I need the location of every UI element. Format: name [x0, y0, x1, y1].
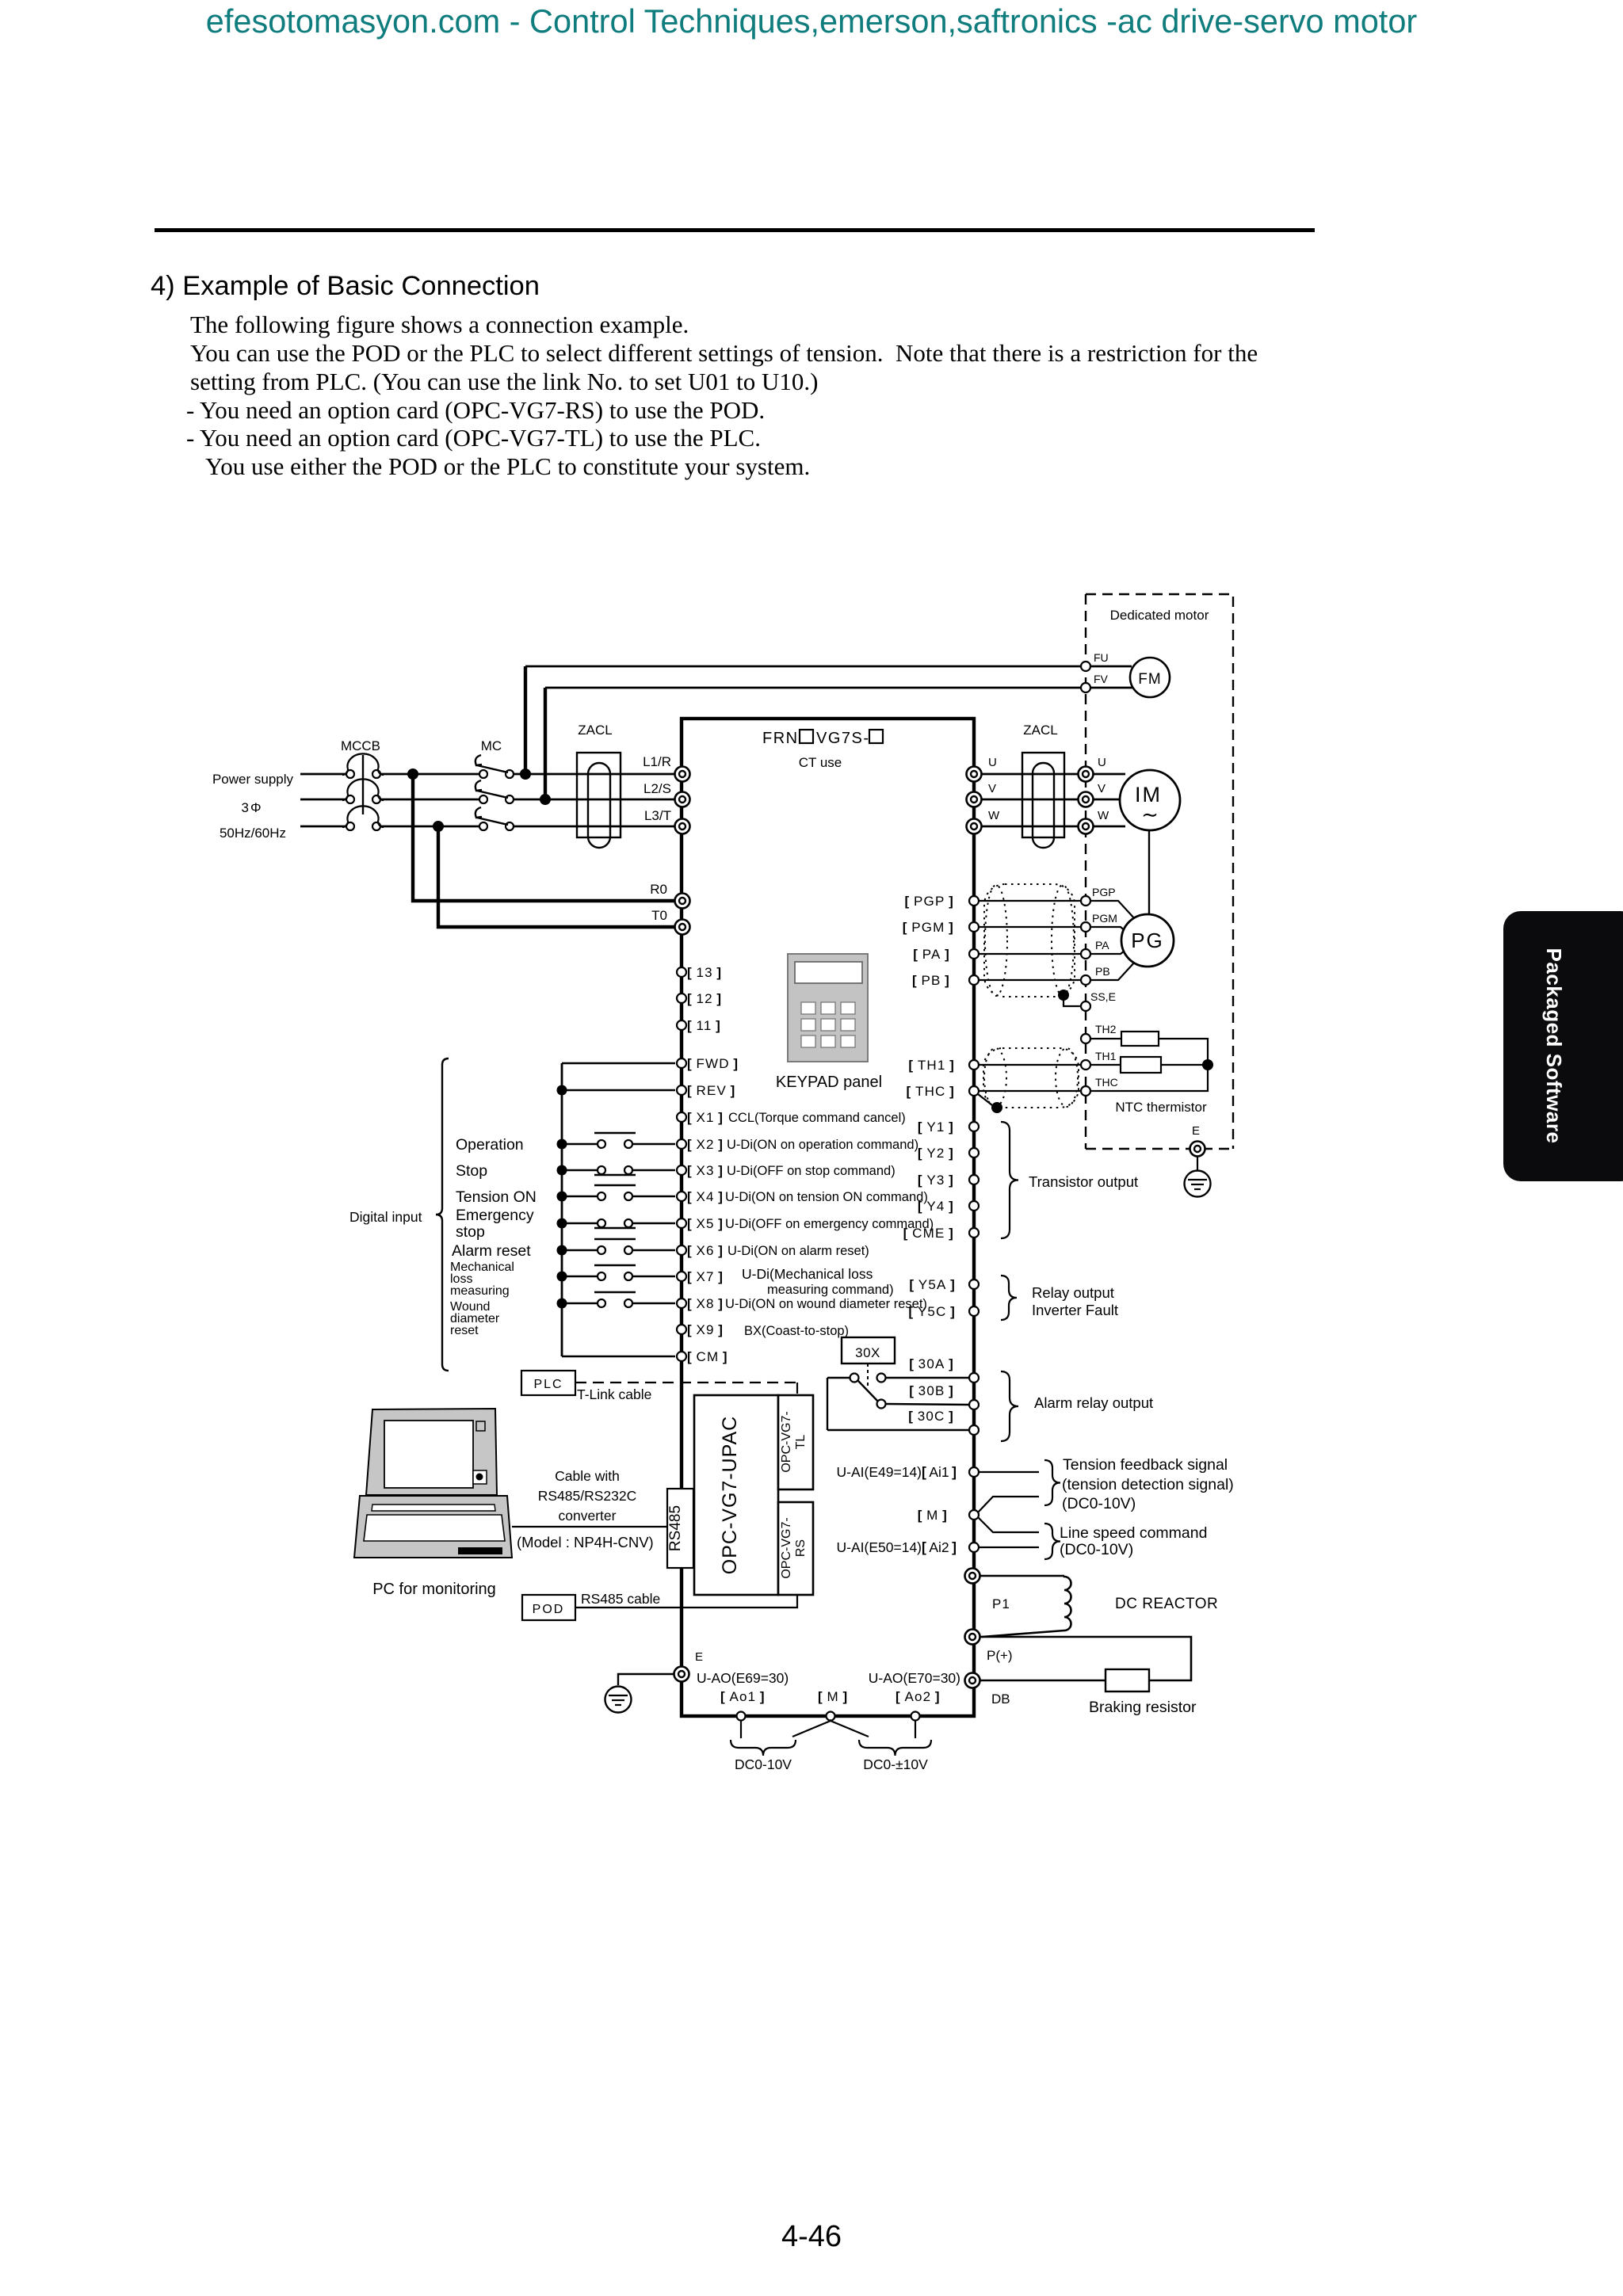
resistor TH1 [1121, 1057, 1161, 1073]
wire T0 tap run [438, 826, 674, 927]
svg-text:[ M ]: [ M ] [818, 1689, 848, 1704]
svg-text:(tension detection signal): (tension detection signal) [1062, 1476, 1234, 1493]
inductor DC reactor [1064, 1576, 1071, 1630]
wire Ai2 [979, 1547, 1039, 1548]
terminal T0 [675, 920, 690, 935]
brace DC0-10V [731, 1740, 796, 1756]
svg-text:T0: T0 [651, 908, 667, 923]
wire R0 tap run [413, 774, 674, 901]
wire PGM to PG [1090, 927, 1128, 934]
wire PGP [979, 900, 1090, 902]
svg-text:U-Di(OFF on stop command): U-Di(OFF on stop command) [727, 1164, 896, 1178]
terminal TH1 inverter [969, 1060, 979, 1070]
svg-text:U: U [1098, 756, 1106, 769]
svg-text:TL: TL [794, 1435, 808, 1450]
svg-text:[ X1 ]: [ X1 ] [687, 1110, 724, 1125]
svg-text:[ THC ]: [ THC ] [907, 1084, 955, 1099]
dedicated motor enclosure [1086, 594, 1233, 1149]
svg-text:[ Y2 ]: [ Y2 ] [918, 1146, 954, 1161]
terminal DB [965, 1673, 980, 1688]
terminal X7 [677, 1272, 686, 1281]
wire V inverter to motor [981, 799, 1125, 801]
svg-text:U: U [988, 756, 997, 769]
tab Packaged Software [1503, 911, 1623, 1181]
page header [0, 2, 1623, 40]
terminal THC motor [1081, 1086, 1090, 1096]
terminal V inverter [967, 792, 982, 807]
terminal E motor [1190, 1142, 1205, 1157]
svg-text:CT use: CT use [799, 755, 842, 770]
svg-text:Emergency: Emergency [456, 1207, 534, 1224]
switch X5 [562, 1222, 597, 1224]
svg-text:SS,E: SS,E [1090, 990, 1116, 1003]
wire FWD [562, 1062, 675, 1064]
inverter FRN-VG7S main box [682, 719, 974, 1716]
svg-text:converter: converter [559, 1508, 617, 1524]
switch X8 [562, 1302, 597, 1304]
svg-text:T-Link cable: T-Link cable [577, 1386, 651, 1402]
terminal V motor [1079, 792, 1094, 807]
svg-text:ZACL: ZACL [578, 723, 612, 738]
svg-text:measuring: measuring [450, 1284, 510, 1298]
svg-text:measuring command): measuring command) [767, 1283, 894, 1297]
svg-text:CCL(Torque command cancel): CCL(Torque command cancel) [728, 1111, 906, 1125]
terminal X8 [677, 1299, 686, 1308]
ground inverter [605, 1687, 632, 1713]
junction X4 bus [557, 1192, 567, 1202]
wire Ai1 [979, 1471, 1039, 1473]
resistor TH2 [1121, 1032, 1159, 1046]
wire TH1 [1090, 1064, 1121, 1066]
box POD [522, 1595, 575, 1620]
section heading [151, 271, 540, 302]
svg-text:V: V [1098, 782, 1106, 795]
svg-text:[ PGP ]: [ PGP ] [905, 894, 954, 909]
svg-text:Braking resistor: Braking resistor [1089, 1699, 1197, 1716]
svg-text:PA: PA [1095, 939, 1109, 952]
terminal Y3 [969, 1175, 979, 1184]
svg-text:ZACL: ZACL [1023, 723, 1057, 738]
svg-text:[ TH1 ]: [ TH1 ] [908, 1058, 955, 1073]
svg-text:[ 30C ]: [ 30C ] [908, 1409, 954, 1424]
svg-text:THC: THC [1095, 1076, 1118, 1089]
terminal 12 [677, 994, 686, 1003]
svg-text:Alarm relay output: Alarm relay output [1034, 1394, 1153, 1411]
wire MCCB to MC L3 [380, 826, 479, 828]
switch X3 [562, 1169, 597, 1171]
svg-text:L3/T: L3/T [644, 808, 671, 823]
svg-text:(DC0-10V): (DC0-10V) [1062, 1495, 1136, 1512]
svg-text:reset: reset [450, 1324, 479, 1337]
brace relay output [1001, 1276, 1017, 1320]
svg-text:POD: POD [533, 1603, 565, 1616]
svg-text:W: W [988, 809, 1000, 822]
wire 30C [827, 1429, 969, 1431]
terminal X3 [677, 1165, 686, 1175]
svg-text:PC for monitoring: PC for monitoring [372, 1581, 496, 1598]
terminal 30C [969, 1425, 979, 1435]
wire THC to shield [978, 1094, 992, 1105]
svg-text:stop: stop [456, 1223, 485, 1241]
svg-text:W: W [1098, 809, 1109, 822]
svg-text:MC: MC [481, 738, 502, 753]
svg-text:[ PA ]: [ PA ] [913, 947, 950, 962]
wire E to ground [618, 1674, 674, 1685]
brace tension feedback [1044, 1460, 1060, 1505]
wire M upper [978, 1497, 1039, 1512]
terminal X6 [677, 1245, 686, 1255]
wire 30A [886, 1377, 969, 1379]
junction X3 bus [557, 1165, 567, 1176]
wire PA [979, 953, 1090, 955]
svg-text:PGP: PGP [1092, 886, 1116, 898]
svg-text:U-Di(OFF on emergency command): U-Di(OFF on emergency command) [725, 1217, 934, 1231]
terminal FV on motor box [1081, 683, 1090, 692]
switch alarm relay [827, 1378, 828, 1430]
svg-text:TH2: TH2 [1095, 1023, 1117, 1035]
shield PG cable [984, 884, 1075, 997]
svg-text:50Hz/60Hz: 50Hz/60Hz [220, 826, 286, 841]
terminal SS,E [1081, 1001, 1090, 1011]
svg-text:[ 12 ]: [ 12 ] [687, 991, 722, 1006]
svg-text:OPC-VG7-UPAC: OPC-VG7-UPAC [719, 1416, 741, 1574]
brace line speed [1044, 1524, 1060, 1559]
svg-text:U-Di(ON on operation command): U-Di(ON on operation command) [727, 1138, 918, 1152]
terminal Ai2 [969, 1543, 979, 1552]
terminal X9 [677, 1325, 686, 1334]
svg-text:[ REV ]: [ REV ] [687, 1083, 736, 1098]
svg-text:U-Di(ON on tension ON command): U-Di(ON on tension ON command) [725, 1190, 928, 1204]
reactor ZACL input [577, 753, 621, 837]
svg-text:∼: ∼ [1141, 803, 1159, 826]
terminal CME [969, 1228, 979, 1238]
wire TH1 link [979, 1064, 1081, 1066]
svg-text:FU: FU [1094, 651, 1109, 664]
terminal L1/R [675, 767, 690, 782]
svg-text:KEYPAD panel: KEYPAD panel [776, 1074, 882, 1091]
wire 30B [886, 1404, 969, 1405]
wire U inverter to motor [981, 773, 1125, 776]
box OPC-VG7-RS [778, 1502, 813, 1595]
brace digital input [436, 1058, 449, 1371]
switch X6 [562, 1249, 597, 1251]
box RS485 [667, 1489, 693, 1568]
terminal FU on motor box [1081, 662, 1090, 671]
wire MCCB to MC L1 [380, 773, 479, 776]
terminal FWD [677, 1058, 686, 1068]
svg-text:Dedicated motor: Dedicated motor [1110, 608, 1209, 623]
svg-text:[ X3 ]: [ X3 ] [687, 1163, 724, 1178]
svg-text:[ X5 ]: [ X5 ] [687, 1216, 724, 1231]
wire TH2 to junction [1159, 1039, 1208, 1060]
svg-text:Cable with: Cable with [555, 1468, 620, 1484]
resistor braking [1106, 1669, 1149, 1691]
motor FM [1130, 658, 1170, 697]
terminal X2 [677, 1139, 686, 1149]
svg-text:NTC thermistor: NTC thermistor [1115, 1100, 1207, 1115]
terminal Y1 [969, 1122, 979, 1131]
wire M lower [978, 1517, 1039, 1532]
svg-text:[ Y3 ]: [ Y3 ] [918, 1173, 954, 1188]
wire PB to PG [1090, 961, 1136, 980]
svg-text:Relay output: Relay output [1032, 1284, 1114, 1301]
terminal E inverter [674, 1667, 689, 1682]
shaft IM to PG [1148, 830, 1150, 914]
wire P(+) to resistor loop [980, 1637, 1191, 1680]
box PLC [521, 1371, 575, 1395]
wire PB [979, 979, 1090, 981]
terminal Y5C [969, 1306, 979, 1316]
svg-text:OPC-VG7-: OPC-VG7- [780, 1411, 793, 1472]
wire P1 to reactor [980, 1575, 1064, 1577]
terminal PGP inverter [969, 896, 979, 906]
switch X4 [562, 1196, 597, 1197]
svg-text:[ Y1 ]: [ Y1 ] [918, 1119, 954, 1135]
terminal Y2 [969, 1148, 979, 1158]
wire E to ground [1197, 1157, 1198, 1170]
terminal CM [677, 1352, 686, 1361]
brace alarm relay output [1001, 1371, 1018, 1441]
svg-text:RS485 cable: RS485 cable [581, 1591, 660, 1607]
wire PA to PG [1090, 948, 1128, 954]
wire 3-phase supply L1 [300, 773, 346, 776]
svg-text:RS485/RS232C: RS485/RS232C [538, 1488, 637, 1504]
switch X2 [562, 1143, 597, 1145]
keypad keys [801, 1002, 815, 1014]
svg-text:[ CM ]: [ CM ] [687, 1349, 728, 1364]
wire W inverter to motor [981, 826, 1125, 828]
svg-text:Power supply: Power supply [212, 772, 294, 787]
junction T0 tap [433, 821, 444, 832]
wire shield to SS,E [1064, 1000, 1080, 1006]
terminal Ai1 [969, 1467, 979, 1477]
svg-text:DC REACTOR: DC REACTOR [1115, 1596, 1218, 1612]
junction FU tap [520, 769, 531, 780]
svg-text:[ 11 ]: [ 11 ] [687, 1018, 721, 1033]
svg-text:[ Y4 ]: [ Y4 ] [918, 1199, 954, 1214]
wire PGM [979, 926, 1090, 928]
brace transistor output [1001, 1122, 1018, 1238]
terminal P(+) [965, 1630, 980, 1645]
terminal PGP motor [1081, 896, 1090, 906]
svg-text:[ X7 ]: [ X7 ] [687, 1269, 724, 1284]
svg-text:U-Di(ON on wound diameter rese: U-Di(ON on wound diameter reset) [725, 1297, 927, 1311]
wire MC to L2/S [514, 799, 675, 801]
svg-text:Operation: Operation [456, 1136, 524, 1154]
svg-text:Inverter Fault: Inverter Fault [1032, 1302, 1118, 1318]
svg-text:FV: FV [1094, 673, 1109, 685]
wire FU [525, 666, 1132, 668]
terminal X4 [677, 1192, 686, 1201]
wire MC to L3/T [514, 826, 675, 828]
svg-text:TH1: TH1 [1095, 1050, 1117, 1062]
terminal TH1 motor [1081, 1060, 1090, 1070]
terminal PGM motor [1081, 922, 1090, 932]
svg-text:Line speed command: Line speed command [1060, 1524, 1207, 1542]
terminal 13 [677, 967, 686, 977]
wire THC link [979, 1090, 1081, 1092]
wire MCCB to MC L2 [380, 799, 479, 801]
wire MC to L1/R [514, 773, 675, 776]
svg-text:PG: PG [1131, 929, 1164, 952]
horizontal rule [155, 228, 1315, 232]
svg-text:[ PB ]: [ PB ] [912, 973, 950, 988]
svg-text:[ Y5A ]: [ Y5A ] [909, 1277, 956, 1292]
svg-text:[ X8 ]: [ X8 ] [687, 1296, 724, 1311]
svg-text:OPC-VG7-: OPC-VG7- [780, 1517, 793, 1578]
brace DC0-pm10V [859, 1740, 931, 1756]
terminal P1 [965, 1569, 980, 1584]
svg-text:RS485: RS485 [667, 1505, 684, 1551]
wire CM [562, 1356, 675, 1357]
switch X7 [562, 1276, 597, 1277]
terminal THC inverter [969, 1086, 979, 1096]
terminal 11 [677, 1020, 686, 1030]
paragraph [190, 311, 689, 339]
svg-text:(Model : NP4H-CNV): (Model : NP4H-CNV) [517, 1534, 654, 1550]
terminal M bottom [827, 1712, 835, 1721]
svg-text:U-Di(Mechanical loss: U-Di(Mechanical loss [742, 1266, 873, 1282]
svg-text:BX(Coast-to-stop): BX(Coast-to-stop) [744, 1324, 849, 1338]
svg-text:U-AI(E49=14)[ Ai1 ]: U-AI(E49=14)[ Ai1 ] [837, 1464, 957, 1480]
box OPC-VG7-UPAC [694, 1395, 778, 1595]
terminal TH2 motor [1081, 1034, 1090, 1043]
terminal R0 [675, 894, 690, 909]
terminal PA motor [1081, 949, 1090, 959]
svg-text:Transistor output: Transistor output [1029, 1173, 1138, 1190]
svg-text:R0: R0 [650, 882, 667, 897]
terminal Ao2 bottom [911, 1712, 920, 1721]
svg-text:P(+): P(+) [987, 1648, 1013, 1663]
svg-text:Alarm reset: Alarm reset [452, 1242, 531, 1260]
svg-text:[ X4 ]: [ X4 ] [687, 1189, 724, 1204]
terminal PB inverter [969, 975, 979, 985]
wire DB to resistor [980, 1680, 1106, 1682]
svg-text:[ CME ]: [ CME ] [903, 1226, 954, 1241]
svg-text:PB: PB [1095, 965, 1110, 978]
terminal PGM inverter [969, 922, 979, 932]
svg-text:U-AO(E70=30): U-AO(E70=30) [869, 1670, 960, 1686]
svg-text:Tension ON: Tension ON [456, 1188, 537, 1206]
terminal U inverter [967, 767, 982, 782]
wire RS485 cable [575, 1595, 797, 1608]
wire reactor to P(+) [982, 1630, 1064, 1637]
svg-text:DC0-10V: DC0-10V [735, 1756, 792, 1772]
terminal U motor [1079, 767, 1094, 782]
svg-text:[ X6 ]: [ X6 ] [687, 1243, 724, 1258]
svg-text:[ 13 ]: [ 13 ] [687, 965, 722, 980]
stub Ao1 [740, 1721, 742, 1738]
terminal PA inverter [969, 949, 979, 959]
svg-text:P1: P1 [992, 1596, 1010, 1611]
page number [0, 2220, 1623, 2254]
stub Ao2 [915, 1721, 916, 1738]
svg-text:[ FWD ]: [ FWD ] [687, 1056, 739, 1071]
stub M split [792, 1721, 831, 1737]
svg-text:L2/S: L2/S [643, 781, 671, 796]
svg-text:[ Y5C ]: [ Y5C ] [908, 1304, 956, 1319]
laptop PC [366, 1409, 497, 1495]
wire 30X dashed [867, 1363, 869, 1389]
wire laptop to RS485 [512, 1526, 667, 1527]
svg-text:PGM: PGM [1092, 912, 1117, 925]
bus digital input common [561, 1063, 563, 1356]
relay coil 30X [842, 1337, 895, 1363]
svg-text:(DC0-10V): (DC0-10V) [1060, 1541, 1133, 1558]
junction X2 bus [557, 1139, 567, 1150]
svg-text:U-Di(ON on alarm reset): U-Di(ON on alarm reset) [727, 1244, 869, 1258]
keypad panel [788, 954, 868, 1062]
wire REV [562, 1089, 675, 1091]
svg-text:30X: 30X [855, 1345, 880, 1360]
wire 3-phase supply L2 [300, 799, 346, 801]
junction X8 bus [557, 1299, 567, 1309]
breaker MCCB [346, 770, 354, 778]
wire TH2 [1090, 1038, 1121, 1039]
reactor ZACL output [1022, 753, 1064, 837]
svg-text:U-AI(E50=14)[ Ai2 ]: U-AI(E50=14)[ Ai2 ] [837, 1539, 957, 1555]
contactor MC [479, 770, 487, 778]
junction thermistor [1202, 1059, 1213, 1070]
svg-text:[ PGM ]: [ PGM ] [903, 920, 954, 935]
junction X7 bus [557, 1272, 567, 1282]
svg-text:[ 30A ]: [ 30A ] [909, 1356, 954, 1371]
svg-text:RS: RS [794, 1539, 808, 1557]
svg-text:MCCB: MCCB [341, 738, 380, 753]
terminal 30A [969, 1373, 979, 1383]
svg-text:FRN: FRN [762, 730, 799, 747]
svg-text:Tension feedback signal: Tension feedback signal [1063, 1456, 1228, 1474]
terminal X1 [677, 1112, 686, 1122]
junction R0 tap [407, 769, 418, 780]
junction TH shield [991, 1102, 1002, 1113]
svg-text:DB: DB [991, 1691, 1010, 1707]
wire 3-phase supply L3 [300, 826, 346, 828]
encoder PG [1121, 914, 1174, 967]
terminal 30B [969, 1400, 979, 1409]
shield TH cable [983, 1048, 1079, 1108]
svg-text:[ Ao1 ]: [ Ao1 ] [720, 1689, 766, 1704]
terminal X5 [677, 1219, 686, 1228]
svg-text:L1/R: L1/R [643, 754, 671, 769]
svg-text:[ 30B ]: [ 30B ] [909, 1383, 954, 1398]
junction REV [557, 1085, 567, 1096]
svg-text:[ Ao2 ]: [ Ao2 ] [896, 1689, 941, 1704]
svg-text:E: E [1192, 1124, 1200, 1138]
junction X5 bus [557, 1219, 567, 1229]
svg-text:U-AO(E69=30): U-AO(E69=30) [697, 1670, 789, 1686]
terminal W motor [1079, 819, 1094, 834]
svg-text:PLC: PLC [533, 1378, 563, 1391]
terminal Y4 [969, 1201, 979, 1211]
terminal REV [677, 1085, 686, 1095]
svg-text:VG7S-: VG7S- [816, 730, 870, 747]
svg-text:FM: FM [1138, 671, 1161, 688]
svg-text:V: V [988, 782, 996, 795]
wire PGP to PG [1090, 901, 1136, 920]
wire FV [545, 687, 1133, 689]
svg-text:E: E [695, 1650, 703, 1664]
svg-text:3Φ: 3Φ [241, 800, 262, 815]
box OPC-VG7-TL [778, 1395, 813, 1489]
svg-text:Digital input: Digital input [349, 1209, 422, 1225]
junction X6 bus [557, 1245, 567, 1256]
terminal L2/S [675, 792, 690, 807]
svg-text:Stop: Stop [456, 1162, 487, 1180]
terminal Ao1 bottom [737, 1712, 746, 1721]
ground motor [1185, 1171, 1211, 1197]
terminal L3/T [675, 819, 690, 834]
